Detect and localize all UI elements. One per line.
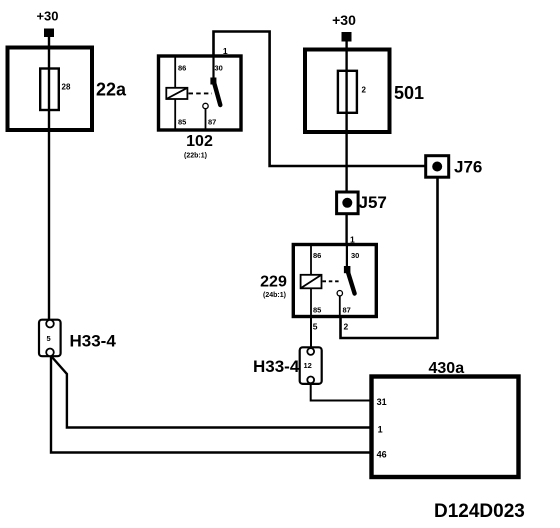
+30 terminal (left) [44,29,54,38]
svg-text:86: 86 [178,64,186,73]
coil symbol [166,88,187,99]
label 102 [186,133,213,150]
svg-text:H33-4: H33-4 [253,357,300,376]
control unit 430a [372,377,519,478]
wire: connector H33-4 pin 5 down and right to 430a pin 46 [51,356,372,453]
label J57 [359,193,387,212]
relay 102 [159,56,242,130]
label (24b:1) [263,292,286,299]
pin label 1 [378,425,383,435]
svg-text:87: 87 [208,118,216,127]
label 22a [96,80,127,100]
wire: relay 229 pin 5 down to connector H33-4 pin 12 [310,317,312,350]
label (22b:1) [184,153,207,160]
svg-text:2: 2 [344,322,349,332]
relay 229 [293,245,376,317]
contact feed line pin 30 [212,58,214,80]
svg-text:2: 2 [362,86,367,95]
label H33-4 (middle) [253,357,300,376]
svg-text:(22b:1): (22b:1) [184,153,207,160]
junction J76 [426,156,449,178]
svg-text:28: 28 [62,83,71,92]
switch arm [347,269,355,294]
pin number 2 (relay 229) [344,322,349,332]
svg-text:85: 85 [313,306,321,315]
svg-text:12: 12 [304,361,312,370]
pin label 28 [62,83,71,92]
svg-text:430a: 430a [429,360,465,377]
fuse 28 symbol [40,69,59,111]
svg-text:5: 5 [313,322,318,332]
pin 87 line [205,109,207,129]
label H33-4 (left) [70,332,117,351]
svg-text:501: 501 [394,83,424,103]
coil symbol [301,275,322,289]
coil feed line pin 86 [310,246,312,275]
wire: +30 terminal through fuse 22a down to connector H33-4 pin 5 [48,37,50,320]
svg-text:(24b:1): (24b:1) [263,292,286,299]
fusebox 22a [8,48,93,131]
svg-text:30: 30 [351,251,359,260]
svg-text:5: 5 [47,334,51,343]
connector H33-4 pin 12 [300,347,322,384]
label 229 [260,274,287,291]
coil return line pin 85 [310,288,312,315]
junction J57 [337,192,359,214]
svg-text:102: 102 [186,133,213,150]
connector H33-4 pin 5 [39,320,61,357]
+30 supply label (left) [36,9,58,24]
switch arm pivot blob [210,78,216,85]
svg-text:J76: J76 [454,158,482,177]
svg-text:1: 1 [378,425,383,435]
wire: connector H33-4 pin 12 down and right to 430a pin 31 [311,383,372,400]
svg-text:+30: +30 [332,12,356,28]
switch arm [214,81,221,106]
pin number 1 (relay 102) [223,46,228,56]
wire: +30 terminal through fuse 501 and J57 down to relay 229 pin 1 [345,41,347,245]
label J76 [454,158,482,177]
svg-text:85: 85 [178,118,186,127]
pin 87 contact circle [203,103,208,108]
wire: connector H33-4 pin 5 diagonal, down and right to 430a pin 1 [52,357,372,428]
coil return line pin 85 [174,99,176,129]
svg-text:J57: J57 [359,193,387,212]
contact feed line pin 30 [346,246,348,267]
switch arm pivot blob [344,266,351,273]
fuse 2 symbol [338,71,357,113]
svg-text:1: 1 [223,46,228,56]
+30 supply label (right) [332,12,356,28]
svg-text:31: 31 [377,397,387,407]
dashed actuator link [323,280,340,282]
pin label 31 [377,397,387,407]
svg-text:46: 46 [377,450,387,460]
svg-text:30: 30 [215,64,223,73]
svg-text:229: 229 [260,274,287,291]
dashed actuator link [189,92,213,94]
wire: relay 102 pin 1 up, right and down to J76 [214,32,427,167]
pin 87 line [339,296,341,315]
+30 terminal (right) [342,32,352,42]
wire: relay 229 pin 2 right and up to J76 [341,178,438,339]
svg-text:+30: +30 [36,9,58,24]
diagram id D124D023 [434,501,525,522]
label 430a [429,360,465,377]
coil feed line pin 86 [174,58,176,89]
label 501 [394,83,424,103]
pin 87 contact circle [337,291,342,296]
pin number 1 (relay 229) [350,235,355,245]
fusebox 501 [305,50,390,133]
pin label 46 [377,450,387,460]
svg-text:86: 86 [313,251,321,260]
pin label 2 [362,86,367,95]
pin number 5 (relay 229) [313,322,318,332]
svg-text:87: 87 [343,306,351,315]
svg-text:D124D023: D124D023 [434,501,525,522]
svg-text:22a: 22a [96,80,127,100]
svg-text:H33-4: H33-4 [70,332,117,351]
